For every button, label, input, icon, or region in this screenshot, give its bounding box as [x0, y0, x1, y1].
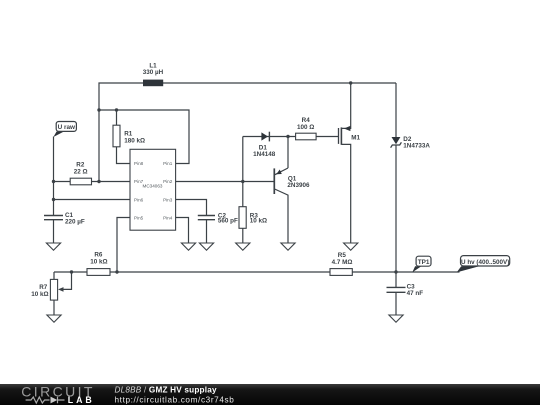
svg-text:R5: R5: [338, 252, 347, 259]
svg-text:LAB: LAB: [68, 395, 95, 405]
svg-text:330 µH: 330 µH: [143, 69, 164, 76]
svg-text:10 kΩ: 10 kΩ: [250, 218, 267, 225]
svg-text:U hv (400..500V): U hv (400..500V): [461, 259, 509, 266]
svg-text:M1: M1: [351, 135, 360, 142]
svg-text:180 kΩ: 180 kΩ: [124, 138, 145, 145]
svg-text:1N4733A: 1N4733A: [403, 143, 430, 150]
svg-text:R6: R6: [94, 252, 103, 259]
svg-text:Pin4: Pin4: [163, 215, 173, 220]
svg-text:560 pF: 560 pF: [218, 218, 238, 225]
svg-text:MC34063: MC34063: [143, 183, 163, 188]
svg-text:R1: R1: [124, 130, 133, 137]
svg-text:Pin2: Pin2: [163, 179, 173, 184]
svg-text:10 kΩ: 10 kΩ: [31, 291, 48, 298]
svg-text:Pin1: Pin1: [163, 161, 173, 166]
svg-text:Pin6: Pin6: [134, 197, 144, 202]
svg-text:DL8BB / GMZ HV supplay: DL8BB / GMZ HV supplay: [115, 386, 217, 395]
svg-text:TP1: TP1: [418, 259, 430, 266]
svg-text:R7: R7: [39, 284, 48, 291]
svg-text:2N3906: 2N3906: [287, 182, 310, 189]
svg-text:Pin8: Pin8: [134, 161, 144, 166]
svg-text:U raw: U raw: [58, 124, 75, 131]
svg-text:4.7 MΩ: 4.7 MΩ: [332, 259, 353, 266]
svg-text:22 Ω: 22 Ω: [74, 169, 88, 176]
svg-text:100 Ω: 100 Ω: [297, 124, 314, 131]
svg-text:Pin5: Pin5: [134, 215, 144, 220]
svg-text:10 kΩ: 10 kΩ: [90, 259, 107, 266]
svg-text:47 nF: 47 nF: [407, 290, 424, 297]
svg-text:http://circuitlab.com/c3r74sb: http://circuitlab.com/c3r74sb: [115, 395, 235, 404]
svg-text:Pin3: Pin3: [163, 197, 173, 202]
svg-text:220 µF: 220 µF: [65, 218, 85, 225]
svg-text:1N4148: 1N4148: [253, 151, 276, 158]
